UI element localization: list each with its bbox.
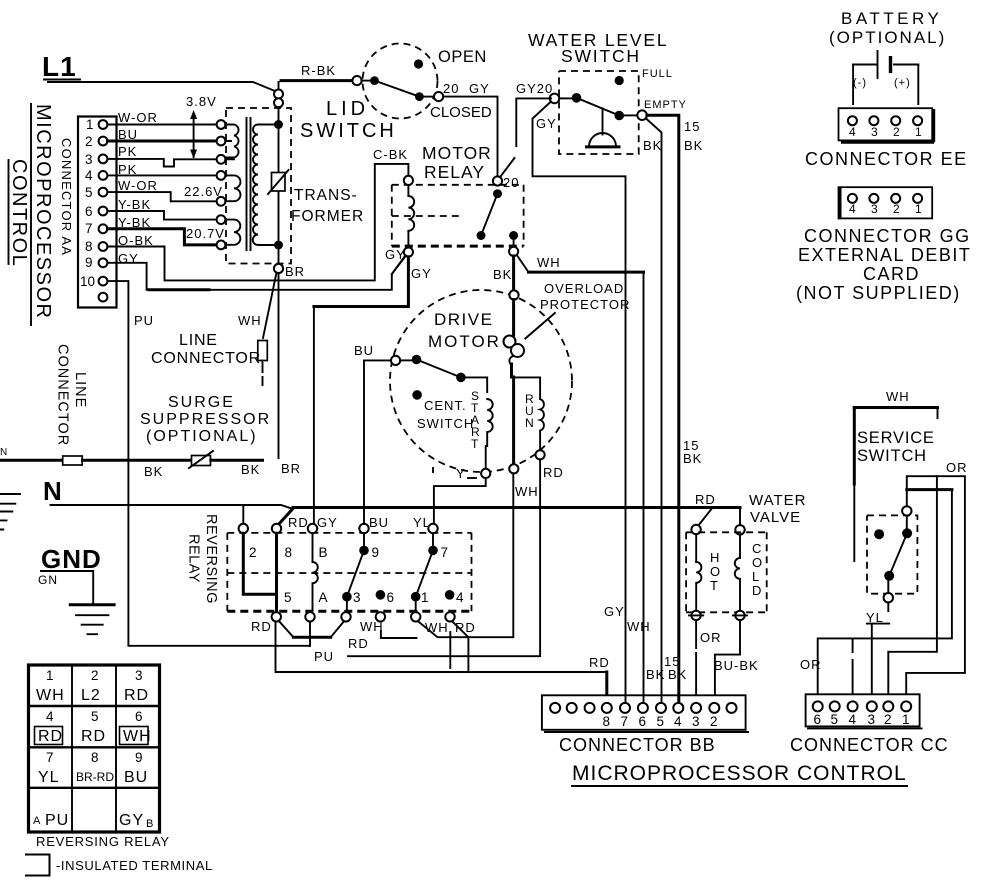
svg-text:PK: PK — [118, 144, 137, 159]
svg-text:4: 4 — [849, 712, 857, 727]
svg-text:EXTERNAL DEBIT: EXTERNAL DEBIT — [798, 245, 971, 265]
svg-text:WH: WH — [515, 484, 539, 499]
svg-text:CONNECTOR: CONNECTOR — [151, 350, 261, 367]
svg-text:BK: BK — [668, 667, 687, 682]
svg-text:5: 5 — [91, 709, 99, 724]
svg-text:EMPTY: EMPTY — [644, 99, 687, 111]
svg-text:GN: GN — [38, 573, 58, 587]
svg-text:MICROPROCESSOR CONTROL: MICROPROCESSOR CONTROL — [572, 762, 907, 785]
svg-text:A: A — [319, 590, 328, 605]
svg-text:8: 8 — [91, 750, 99, 765]
svg-text:3: 3 — [871, 125, 878, 139]
svg-text:N: N — [0, 447, 7, 458]
svg-text:2: 2 — [85, 134, 93, 149]
svg-text:RD: RD — [543, 465, 564, 480]
svg-text:5: 5 — [657, 714, 665, 729]
svg-text:1: 1 — [915, 125, 922, 139]
svg-text:CONTROL: CONTROL — [8, 159, 30, 267]
svg-text:6: 6 — [387, 590, 395, 605]
svg-text:3: 3 — [135, 668, 143, 683]
svg-text:15: 15 — [684, 119, 700, 134]
svg-text:20: 20 — [503, 175, 519, 190]
svg-text:Y: Y — [456, 466, 466, 481]
svg-text:7: 7 — [621, 714, 629, 729]
svg-text:T: T — [710, 578, 718, 593]
svg-text:SWITCH: SWITCH — [561, 46, 641, 66]
svg-text:6: 6 — [639, 714, 647, 729]
svg-text:WH: WH — [238, 313, 262, 328]
svg-text:BU: BU — [124, 769, 148, 786]
svg-text:TRANS-: TRANS- — [294, 187, 358, 204]
svg-text:9: 9 — [372, 545, 380, 560]
svg-text:REVERSING: REVERSING — [203, 514, 219, 604]
svg-text:PU: PU — [314, 649, 334, 664]
svg-text:4: 4 — [46, 709, 54, 724]
svg-text:SUPPRESSOR: SUPPRESSOR — [140, 411, 271, 428]
svg-text:BR: BR — [281, 461, 301, 476]
svg-text:N: N — [525, 416, 534, 430]
svg-text:CONNECTOR BB: CONNECTOR BB — [559, 735, 716, 755]
svg-text:CENT.: CENT. — [424, 398, 467, 413]
svg-text:2: 2 — [91, 668, 99, 683]
svg-text:D: D — [752, 583, 761, 598]
svg-text:WH: WH — [425, 620, 449, 635]
svg-text:RD: RD — [81, 728, 106, 745]
svg-text:(OPTIONAL): (OPTIONAL) — [146, 428, 258, 445]
svg-text:OR: OR — [800, 657, 822, 672]
svg-text:H: H — [710, 550, 719, 565]
svg-text:A: A — [33, 815, 41, 827]
svg-text:3: 3 — [85, 152, 93, 167]
svg-text:3: 3 — [868, 712, 876, 727]
svg-text:WH: WH — [537, 255, 561, 270]
svg-text:1: 1 — [86, 117, 94, 132]
svg-text:GND: GND — [41, 544, 102, 574]
svg-text:3: 3 — [871, 202, 878, 216]
svg-text:CARD: CARD — [863, 264, 920, 284]
svg-text:W-OR: W-OR — [118, 178, 158, 193]
svg-text:PROTECTOR: PROTECTOR — [540, 297, 630, 312]
svg-text:4: 4 — [456, 590, 464, 605]
svg-text:FULL: FULL — [642, 68, 673, 80]
svg-text:3.8V: 3.8V — [186, 94, 217, 109]
svg-text:CONNECTOR CC: CONNECTOR CC — [790, 735, 949, 755]
svg-text:2: 2 — [893, 125, 900, 139]
svg-text:C: C — [752, 541, 761, 556]
svg-text:MOTOR: MOTOR — [422, 143, 492, 163]
svg-text:(+): (+) — [894, 77, 911, 89]
svg-text:8: 8 — [603, 714, 611, 729]
svg-text:BU-BK: BU-BK — [714, 658, 759, 673]
svg-text:20: 20 — [443, 81, 459, 96]
svg-text:RELAY: RELAY — [186, 534, 202, 583]
svg-text:L2: L2 — [81, 687, 101, 704]
svg-text:LID: LID — [326, 98, 369, 120]
svg-text:PU: PU — [134, 313, 154, 328]
svg-text:4: 4 — [674, 714, 682, 729]
svg-text:5: 5 — [831, 712, 839, 727]
svg-text:WH: WH — [36, 687, 65, 704]
svg-text:C-BK: C-BK — [373, 147, 408, 162]
svg-text:CONNECTOR: CONNECTOR — [55, 344, 71, 446]
svg-text:OPEN: OPEN — [438, 48, 487, 66]
svg-text:SURGE: SURGE — [168, 394, 235, 411]
svg-text:GY: GY — [317, 515, 338, 530]
svg-text:6: 6 — [135, 709, 143, 724]
svg-text:CONNECTOR GG: CONNECTOR GG — [804, 226, 971, 246]
svg-text:BU: BU — [369, 515, 389, 530]
svg-text:RD: RD — [124, 687, 149, 704]
svg-text:2: 2 — [249, 545, 257, 560]
svg-text:SWITCH: SWITCH — [417, 416, 474, 431]
svg-text:BK: BK — [241, 462, 260, 477]
svg-text:7: 7 — [85, 221, 93, 236]
svg-text:2: 2 — [884, 712, 892, 727]
svg-text:GY: GY — [604, 604, 625, 619]
svg-text:CLOSED: CLOSED — [430, 104, 492, 121]
svg-text:RD: RD — [695, 492, 716, 507]
svg-text:SERVICE: SERVICE — [857, 429, 935, 447]
svg-text:3: 3 — [353, 590, 361, 605]
svg-text:T: T — [471, 437, 479, 451]
svg-text:B: B — [319, 545, 328, 560]
svg-text:LINE: LINE — [179, 332, 218, 349]
svg-text:R-BK: R-BK — [301, 63, 336, 78]
svg-text:BK: BK — [646, 667, 665, 682]
svg-text:L1: L1 — [42, 51, 77, 82]
svg-text:5: 5 — [284, 590, 292, 605]
svg-text:GY: GY — [119, 812, 144, 829]
svg-text:2: 2 — [893, 202, 900, 216]
svg-text:FORMER: FORMER — [291, 208, 364, 225]
svg-text:WATER: WATER — [749, 492, 807, 509]
svg-text:RD: RD — [38, 728, 63, 745]
svg-text:-INSULATED TERMINAL: -INSULATED TERMINAL — [56, 858, 213, 873]
svg-text:6: 6 — [814, 712, 822, 727]
svg-text:BR: BR — [285, 264, 305, 279]
svg-text:BK: BK — [643, 138, 662, 153]
svg-text:BK: BK — [683, 451, 702, 466]
svg-text:DRIVE: DRIVE — [434, 310, 493, 329]
svg-text:2: 2 — [710, 714, 718, 729]
svg-text:8: 8 — [85, 239, 93, 254]
svg-text:MOTOR: MOTOR — [428, 332, 501, 351]
svg-text:YL: YL — [38, 769, 60, 786]
svg-text:GY: GY — [536, 116, 557, 131]
svg-text:BK: BK — [493, 267, 512, 282]
svg-text:O: O — [710, 564, 720, 579]
svg-text:N: N — [43, 476, 62, 506]
svg-text:5: 5 — [85, 185, 93, 200]
svg-text:1: 1 — [421, 590, 429, 605]
svg-text:RD: RD — [251, 619, 272, 634]
svg-text:20.7V: 20.7V — [186, 226, 225, 241]
svg-text:MICROPROCESSOR: MICROPROCESSOR — [32, 104, 54, 319]
svg-text:BATTERY: BATTERY — [841, 9, 942, 28]
svg-text:BR-RD: BR-RD — [76, 770, 114, 784]
svg-text:BU: BU — [354, 343, 374, 358]
svg-text:4: 4 — [85, 168, 93, 183]
svg-text:L: L — [752, 569, 759, 584]
svg-text:9: 9 — [135, 750, 143, 765]
svg-text:O: O — [752, 555, 762, 570]
svg-text:(OPTIONAL): (OPTIONAL) — [829, 28, 946, 47]
svg-text:(NOT SUPPLIED): (NOT SUPPLIED) — [796, 283, 961, 303]
svg-text:REVERSING RELAY: REVERSING RELAY — [36, 834, 170, 849]
svg-text:W-OR: W-OR — [118, 110, 158, 125]
svg-text:RD: RD — [589, 655, 610, 670]
svg-text:1: 1 — [46, 668, 54, 683]
svg-text:8: 8 — [285, 545, 293, 560]
svg-text:OR: OR — [700, 630, 722, 645]
svg-text:7: 7 — [46, 750, 54, 765]
svg-text:10: 10 — [80, 274, 95, 289]
svg-text:RD: RD — [288, 515, 309, 530]
svg-text:OR: OR — [946, 460, 968, 475]
svg-text:PU: PU — [45, 812, 69, 829]
svg-text:B: B — [146, 818, 153, 830]
svg-text:WH: WH — [627, 619, 651, 634]
svg-text:9: 9 — [85, 255, 93, 270]
svg-text:4: 4 — [849, 202, 856, 216]
svg-text:3: 3 — [692, 714, 700, 729]
svg-text:4: 4 — [849, 125, 856, 139]
svg-text:1: 1 — [902, 712, 910, 727]
svg-text:RD: RD — [348, 636, 369, 651]
svg-text:(-): (-) — [853, 77, 867, 89]
svg-text:LINE: LINE — [72, 372, 88, 408]
svg-text:7: 7 — [441, 545, 449, 560]
svg-text:OVERLOAD: OVERLOAD — [544, 281, 624, 296]
svg-text:Y-BK: Y-BK — [118, 197, 151, 212]
svg-text:1: 1 — [915, 202, 922, 216]
svg-text:GY20: GY20 — [516, 81, 553, 96]
svg-text:SWITCH: SWITCH — [857, 447, 927, 465]
svg-text:SWITCH: SWITCH — [300, 120, 397, 142]
svg-text:WH: WH — [886, 389, 910, 404]
svg-text:BK: BK — [684, 138, 703, 153]
svg-text:GY: GY — [411, 266, 432, 281]
svg-text:RELAY: RELAY — [424, 162, 485, 182]
svg-text:BK: BK — [144, 464, 163, 479]
svg-text:CONNECTOR AA: CONNECTOR AA — [59, 138, 74, 256]
svg-text:YL: YL — [413, 515, 431, 530]
svg-text:VALVE: VALVE — [750, 509, 801, 526]
svg-text:GY: GY — [469, 81, 490, 96]
svg-text:CONNECTOR EE: CONNECTOR EE — [805, 149, 968, 169]
svg-text:6: 6 — [85, 204, 93, 219]
svg-text:22.6V: 22.6V — [184, 184, 223, 199]
